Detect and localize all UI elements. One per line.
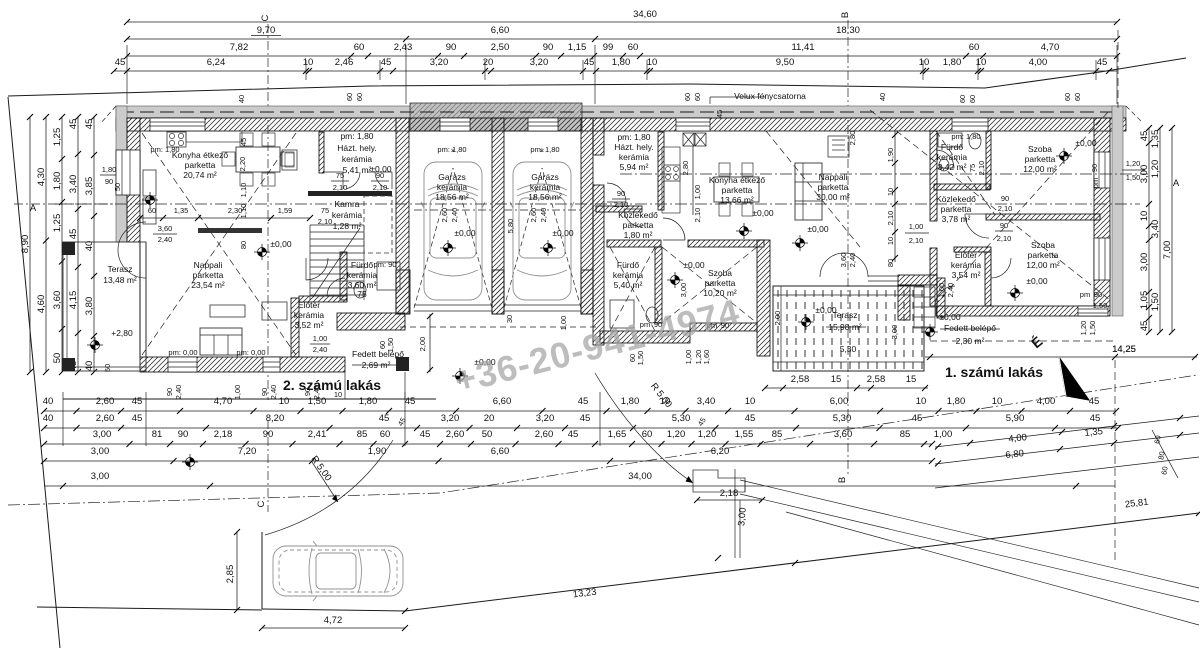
svg-text:45: 45 — [68, 119, 79, 130]
svg-text:1,20: 1,20 — [698, 429, 717, 440]
svg-text:2,60: 2,60 — [535, 429, 554, 440]
svg-text:kerámia: kerámia — [437, 182, 468, 192]
svg-text:20,74 m²: 20,74 m² — [183, 170, 217, 180]
top dimension row 4 — [111, 57, 1117, 74]
svg-text:30,00 m²: 30,00 m² — [816, 192, 850, 202]
svg-text:pm: 1,80: pm: 1,80 — [437, 145, 466, 154]
terrace glass wall — [140, 242, 146, 357]
svg-text:3,60: 3,60 — [52, 291, 63, 310]
svg-text:60: 60 — [683, 93, 692, 101]
svg-text:parketta: parketta — [722, 185, 753, 195]
unit1 entry porch walls — [898, 275, 945, 320]
gate posts right — [693, 469, 745, 558]
svg-text:10: 10 — [745, 396, 756, 407]
svg-text:1,35: 1,35 — [1150, 130, 1161, 149]
svg-text:9,50: 9,50 — [776, 57, 795, 68]
svg-text:1,80: 1,80 — [943, 57, 962, 68]
svg-text:+2,80: +2,80 — [111, 328, 133, 338]
unit1 szoba south wall — [690, 323, 757, 331]
svg-text:2,58: 2,58 — [867, 374, 886, 385]
room label Garazs 1 — [435, 172, 469, 202]
unit1 interior dim line x895 — [892, 131, 898, 262]
unit1 furdo south wall — [600, 331, 690, 343]
svg-text:B: B — [840, 12, 851, 18]
svg-text:±0,00: ±0,00 — [752, 208, 773, 218]
svg-text:pm: 90: pm: 90 — [374, 260, 397, 269]
svg-text:1,00: 1,00 — [934, 429, 953, 440]
svg-text:2,60: 2,60 — [96, 413, 115, 424]
label Terasz unit1 — [815, 305, 866, 354]
svg-text:8,20: 8,20 — [266, 413, 285, 424]
svg-text:pm: 0,00: pm: 0,00 — [168, 348, 197, 357]
room label Furdo 540 — [613, 260, 644, 290]
terrace door double swing — [118, 222, 146, 278]
svg-text:7,00: 7,00 — [1162, 241, 1173, 260]
unit1 kozlekedo door — [624, 209, 642, 227]
svg-text:pm: pm — [1091, 178, 1100, 188]
svg-text:3,52 m²: 3,52 m² — [295, 320, 324, 330]
svg-text:30: 30 — [505, 315, 514, 323]
svg-text:85: 85 — [772, 429, 783, 440]
svg-text:±0,00: ±0,00 — [683, 260, 704, 270]
svg-text:1,80: 1,80 — [102, 165, 117, 174]
svg-text:pm: pm — [1080, 290, 1090, 299]
svg-text:45: 45 — [132, 396, 143, 407]
svg-text:90: 90 — [1001, 194, 1009, 203]
svg-text:81: 81 — [152, 429, 163, 440]
svg-text:2,40: 2,40 — [313, 345, 328, 354]
left dim col 3 — [52, 114, 65, 375]
south ground line west — [37, 607, 262, 610]
svg-text:6,60: 6,60 — [491, 446, 510, 457]
unit1 door hazt — [607, 183, 626, 202]
svg-text:4,72: 4,72 — [324, 615, 343, 626]
property boundary dash-dot line — [8, 375, 1197, 505]
svg-text:45: 45 — [578, 396, 589, 407]
svg-text:2,18: 2,18 — [214, 429, 233, 440]
svg-text:60: 60 — [968, 95, 977, 103]
svg-text:Fedett belépő: Fedett belépő — [944, 323, 996, 333]
right window dims 1,20 1,50 — [1090, 159, 1145, 188]
unit2 south wall hatched — [140, 357, 345, 372]
svg-text:1,00: 1,00 — [684, 350, 693, 365]
north arrow — [1028, 333, 1089, 400]
svg-text:6,80: 6,80 — [1005, 448, 1025, 461]
room label Furdo 342 — [937, 142, 968, 172]
bottom dimension row D — [41, 446, 935, 464]
svg-text:3,42 m²: 3,42 m² — [938, 162, 967, 172]
unit1 porch dashed line — [930, 340, 1115, 342]
svg-text:60: 60 — [148, 206, 156, 215]
svg-text:40: 40 — [878, 93, 887, 101]
svg-text:50: 50 — [103, 364, 112, 372]
svg-text:kerámia: kerámia — [951, 260, 982, 270]
axis B vertical dash-dot line — [837, 12, 851, 483]
svg-text:3,85: 3,85 — [84, 177, 95, 196]
roof dashed diagonals — [142, 110, 1110, 355]
unit1 terrace door double — [820, 253, 898, 281]
svg-text:pm: 1,80: pm: 1,80 — [150, 145, 179, 154]
svg-text:3,00: 3,00 — [91, 471, 110, 482]
svg-text:1,80: 1,80 — [52, 172, 63, 191]
terrace unit2 outline — [63, 242, 146, 371]
sloped line lower — [935, 457, 1199, 488]
svg-text:1. számú lakás: 1. számú lakás — [945, 364, 1043, 380]
svg-text:2,10: 2,10 — [318, 217, 333, 226]
bottom dimension row B — [41, 413, 1121, 431]
unit2 right cabinet — [282, 150, 297, 170]
svg-text:4,60: 4,60 — [36, 295, 47, 314]
svg-text:75: 75 — [357, 289, 367, 299]
unit1 entry steps — [914, 287, 935, 328]
svg-text:40: 40 — [43, 396, 54, 407]
svg-text:5,90: 5,90 — [1006, 413, 1025, 424]
svg-text:2,40: 2,40 — [174, 385, 183, 400]
svg-text:kerámia: kerámia — [530, 182, 561, 192]
svg-text:Konyha étkező: Konyha étkező — [709, 175, 766, 185]
svg-text:Garázs: Garázs — [531, 172, 558, 182]
svg-text:45: 45 — [715, 110, 724, 118]
svg-text:2,46: 2,46 — [335, 57, 354, 68]
roof dashed line in top band — [120, 111, 1120, 113]
svg-text:3,00: 3,00 — [1139, 253, 1150, 272]
svg-text:80: 80 — [1156, 451, 1166, 461]
svg-text:45: 45 — [239, 138, 248, 146]
left dim col 5 — [84, 114, 97, 375]
svg-text:45: 45 — [68, 229, 79, 240]
svg-text:3,60: 3,60 — [158, 224, 173, 233]
unit2 eloter wall vertical — [291, 298, 299, 357]
svg-text:parketta: parketta — [193, 270, 224, 280]
svg-text:45: 45 — [1089, 396, 1100, 407]
svg-text:2,40: 2,40 — [946, 283, 955, 298]
svg-text:2,00: 2,00 — [418, 337, 427, 352]
south boundary 13,23 and 25,81 — [402, 497, 1200, 614]
svg-text:10: 10 — [647, 57, 658, 68]
svg-text:12,00 m²: 12,00 m² — [1026, 260, 1060, 270]
unit1 door szoba top — [965, 214, 989, 238]
svg-text:pm: 0,00: pm: 0,00 — [236, 348, 265, 357]
svg-text:Fürdő: Fürdő — [351, 260, 373, 270]
svg-text:90: 90 — [543, 42, 554, 53]
svg-text:4,00: 4,00 — [1008, 432, 1028, 445]
door size labels — [153, 161, 1107, 366]
unit1 door kitchen — [663, 218, 685, 240]
svg-text:90: 90 — [446, 42, 457, 53]
garage middle wall — [492, 118, 504, 314]
unit1 szoba/furdo divider — [655, 247, 662, 323]
svg-text:±0,00: ±0,00 — [1075, 138, 1096, 148]
left dim col 1: 8,90 — [20, 114, 33, 375]
svg-text:2,10: 2,10 — [998, 204, 1013, 213]
svg-text:90: 90 — [260, 388, 269, 396]
svg-text:Közlekedő: Közlekedő — [936, 194, 976, 204]
unit1 door szoba bottom — [991, 258, 1011, 278]
unit2 staircase — [310, 196, 392, 300]
svg-text:2,10: 2,10 — [373, 183, 388, 192]
svg-text:60: 60 — [345, 93, 354, 101]
svg-text:±0,00: ±0,00 — [270, 239, 291, 249]
svg-text:90: 90 — [105, 177, 113, 186]
svg-text:1,50: 1,50 — [1126, 173, 1141, 182]
car bay left wall — [261, 532, 263, 609]
unit2 bath fixtures — [354, 262, 400, 298]
svg-text:10: 10 — [976, 57, 987, 68]
room label Nappali unit2 — [191, 260, 225, 290]
svg-text:1,20: 1,20 — [667, 429, 686, 440]
svg-text:2,40: 2,40 — [269, 385, 278, 400]
svg-text:Szoba: Szoba — [1028, 144, 1052, 154]
axis A left — [14, 203, 118, 214]
unit1 szoba west wall — [986, 131, 991, 189]
svg-text:kerámia: kerámia — [937, 152, 968, 162]
unit2 door bath — [327, 278, 345, 296]
svg-text:2,80: 2,80 — [848, 131, 857, 146]
garage doors south — [414, 305, 581, 311]
unit1 east block wall — [930, 131, 937, 306]
room label Furdo unit2 — [347, 260, 378, 299]
unit separation wall — [593, 118, 604, 155]
room label Eloter unit1 — [951, 250, 982, 280]
svg-text:4,70: 4,70 — [1041, 42, 1060, 53]
svg-text:1,80: 1,80 — [612, 57, 631, 68]
svg-text:2,10: 2,10 — [977, 161, 986, 176]
svg-text:14,25: 14,25 — [1112, 344, 1136, 355]
svg-text:±0,00: ±0,00 — [939, 312, 960, 322]
unit1 south wall east — [936, 306, 1100, 316]
terrace unit2 pillars — [62, 242, 75, 255]
unit2 south wall windows — [168, 357, 280, 372]
svg-text:3,20: 3,20 — [430, 57, 449, 68]
svg-text:1,55: 1,55 — [735, 429, 754, 440]
svg-text:45: 45 — [379, 413, 390, 424]
svg-text:parketta: parketta — [1025, 154, 1056, 164]
svg-text:3,40: 3,40 — [697, 396, 716, 407]
top dimension row 1 total 34,60 — [124, 9, 1120, 25]
svg-text:parketta: parketta — [1028, 250, 1059, 260]
unit1 tv cabinet — [828, 136, 849, 157]
svg-text:1,00: 1,00 — [909, 222, 924, 231]
svg-text:1,00: 1,00 — [233, 385, 242, 400]
garage2 car — [510, 162, 574, 300]
svg-text:5,30: 5,30 — [672, 413, 691, 424]
svg-text:20: 20 — [483, 57, 494, 68]
svg-text:9,70: 9,70 — [257, 25, 276, 36]
svg-text:2,60: 2,60 — [440, 208, 449, 223]
svg-text:kerámia: kerámia — [619, 152, 650, 162]
svg-text:3,20: 3,20 — [530, 57, 549, 68]
room label Hazt hely unit1 — [614, 132, 654, 172]
extension lines top — [127, 45, 1117, 104]
svg-text:2,40: 2,40 — [450, 208, 459, 223]
room label Szoba bottom right — [1026, 240, 1060, 286]
svg-text:80: 80 — [239, 241, 248, 249]
svg-text:5,30: 5,30 — [840, 344, 857, 354]
unit2 kitchen counter top band — [186, 131, 242, 142]
svg-text:60: 60 — [1063, 93, 1072, 101]
svg-text:C: C — [260, 14, 271, 21]
svg-text:45: 45 — [1090, 413, 1101, 424]
svg-text:1,80 m²: 1,80 m² — [624, 230, 653, 240]
svg-text:kerámia: kerámia — [332, 210, 363, 220]
svg-text:1,10: 1,10 — [239, 183, 248, 198]
svg-text:45: 45 — [132, 413, 143, 424]
svg-text:Garázs: Garázs — [438, 172, 465, 182]
room label Eloter unit2 — [294, 300, 325, 330]
site boundary: west property line — [8, 97, 60, 648]
dim 2,85 — [225, 529, 240, 613]
svg-text:2,00: 2,00 — [773, 311, 782, 326]
room label Szoba top right — [1023, 138, 1097, 174]
svg-text:10: 10 — [303, 57, 314, 68]
svg-text:1,15: 1,15 — [568, 42, 587, 53]
svg-text:parketta: parketta — [705, 278, 736, 288]
svg-text:8,90: 8,90 — [20, 235, 31, 254]
level labels — [111, 208, 829, 367]
svg-text:60: 60 — [642, 429, 653, 440]
dim 14,25 label redraw — [1112, 344, 1136, 355]
svg-text:1,20: 1,20 — [1126, 159, 1141, 168]
svg-text:45: 45 — [381, 57, 392, 68]
svg-text:15: 15 — [906, 374, 917, 385]
svg-text:A: A — [30, 203, 37, 214]
svg-text:2,40: 2,40 — [848, 253, 857, 268]
svg-text:3,00: 3,00 — [890, 325, 899, 340]
svg-text:1,60: 1,60 — [702, 350, 711, 365]
svg-text:2,10: 2,10 — [886, 211, 895, 226]
unit2 porch step wall — [337, 313, 405, 330]
svg-text:C: C — [256, 500, 267, 507]
svg-text:pm: 1,80: pm: 1,80 — [340, 131, 373, 141]
svg-text:B: B — [837, 477, 848, 483]
dim 4,72 — [259, 615, 408, 631]
svg-text:2. számú lakás: 2. számú lakás — [283, 377, 381, 393]
svg-text:75: 75 — [968, 164, 977, 172]
svg-text:Előtér: Előtér — [955, 250, 977, 260]
svg-text:±0,00: ±0,00 — [552, 228, 573, 238]
svg-text:3,80: 3,80 — [84, 297, 95, 316]
unit1 south wall window — [1078, 306, 1108, 316]
svg-text:13,66 m²: 13,66 m² — [720, 195, 754, 205]
svg-text:1,00: 1,00 — [693, 185, 702, 200]
right slope dims 60 80 60 — [1152, 430, 1178, 478]
unit2 hazt wall vertical — [319, 132, 324, 173]
svg-text:1,65: 1,65 — [608, 429, 627, 440]
svg-text:7,20: 7,20 — [238, 446, 257, 457]
car bay bottom — [262, 609, 405, 611]
svg-text:3,00: 3,00 — [93, 429, 112, 440]
unit1 kozlekedo label — [618, 210, 658, 240]
svg-text:1,28 m²: 1,28 m² — [333, 221, 362, 231]
velux fenycsatorna grey strip — [410, 103, 582, 131]
unit1 furdo 3,42 walls — [934, 184, 990, 190]
axis A dash-dot through building — [55, 203, 1140, 205]
svg-text:4,00: 4,00 — [1037, 396, 1056, 407]
svg-text:±0,00: ±0,00 — [1026, 276, 1047, 286]
svg-text:1,25: 1,25 — [52, 214, 63, 233]
svg-text:parketta: parketta — [623, 220, 654, 230]
svg-text:7,82: 7,82 — [230, 42, 249, 53]
svg-text:1,90: 1,90 — [886, 148, 895, 163]
svg-text:5,30: 5,30 — [833, 413, 852, 424]
svg-text:50: 50 — [482, 429, 493, 440]
svg-text:45: 45 — [584, 57, 595, 68]
svg-text:Nappali: Nappali — [819, 172, 848, 182]
svg-text:2,60: 2,60 — [446, 429, 465, 440]
svg-text:23,54 m²: 23,54 m² — [191, 280, 225, 290]
left dim col 2 — [36, 114, 49, 375]
unit2 sofa group — [200, 302, 287, 355]
svg-text:3,54 m²: 3,54 m² — [952, 270, 981, 280]
sloped dim line 6,80 — [935, 432, 1199, 467]
svg-text:34,60: 34,60 — [633, 9, 657, 20]
unit1 furdo 3,42 fixtures — [938, 132, 981, 171]
roof hip corner dashes — [100, 106, 116, 124]
svg-text:50: 50 — [113, 183, 122, 191]
svg-text:60: 60 — [355, 93, 364, 101]
svg-text:kerámia: kerámia — [613, 270, 644, 280]
svg-text:18,56 m²: 18,56 m² — [435, 192, 469, 202]
svg-text:6,20: 6,20 — [711, 446, 730, 457]
room label Konyha unit1 — [709, 175, 766, 205]
north wall windows — [150, 118, 988, 131]
svg-text:3,00: 3,00 — [679, 283, 688, 298]
unit1 eloter walls — [954, 247, 991, 306]
svg-text:1,80: 1,80 — [359, 396, 378, 407]
svg-text:40: 40 — [237, 95, 246, 103]
svg-text:3,40: 3,40 — [68, 175, 79, 194]
svg-text:±0,00: ±0,00 — [815, 305, 836, 315]
unit1 hazt-hely walls — [596, 132, 664, 212]
unit1 furdo 5,40 fixtures — [610, 300, 658, 328]
svg-text:1,20: 1,20 — [1079, 321, 1088, 336]
svg-text:3,60: 3,60 — [839, 253, 848, 268]
unit1 sofa — [795, 163, 822, 220]
svg-text:1,50: 1,50 — [1088, 321, 1097, 336]
svg-text:90: 90 — [1094, 290, 1102, 299]
building outer grey eaves band top — [116, 106, 1126, 118]
svg-text:2,41: 2,41 — [308, 429, 327, 440]
site boundary: terrain line above building — [8, 58, 1186, 96]
room label Nappali unit1 — [816, 172, 850, 202]
svg-text:1,35: 1,35 — [1084, 426, 1104, 439]
bottom dimension row E: 34,00 — [44, 471, 1115, 489]
svg-text:Kamra: Kamra — [334, 199, 359, 209]
svg-text:1,05: 1,05 — [1139, 291, 1150, 310]
unit2 kamra top wall dark — [308, 191, 392, 196]
svg-text:60: 60 — [1073, 93, 1082, 101]
unit1 kitchen counter — [662, 133, 706, 213]
bottom dimension row C — [41, 429, 952, 447]
unit2 kitchen stove — [167, 132, 186, 147]
building east wall — [1112, 106, 1123, 316]
svg-text:50: 50 — [52, 353, 63, 364]
right dim col 3 — [1162, 125, 1175, 335]
svg-text:6,00: 6,00 — [830, 396, 849, 407]
svg-text:2,18: 2,18 — [720, 488, 739, 499]
room label Garazs 2 — [528, 172, 562, 202]
top dimension row 2: 9,70 / 6,60 / 18,30 — [124, 25, 1120, 42]
svg-text:1,80: 1,80 — [947, 396, 966, 407]
svg-text:45: 45 — [568, 429, 579, 440]
svg-text:Házt. hely.: Házt. hely. — [337, 143, 377, 153]
svg-text:10: 10 — [992, 396, 1003, 407]
unit1 terrace dim 2,58 row — [762, 374, 928, 391]
svg-text:kerámia: kerámia — [294, 310, 325, 320]
unit1 middle horizontal wall — [607, 240, 661, 247]
svg-text:2,58: 2,58 — [791, 374, 810, 385]
svg-text:60: 60 — [958, 95, 967, 103]
